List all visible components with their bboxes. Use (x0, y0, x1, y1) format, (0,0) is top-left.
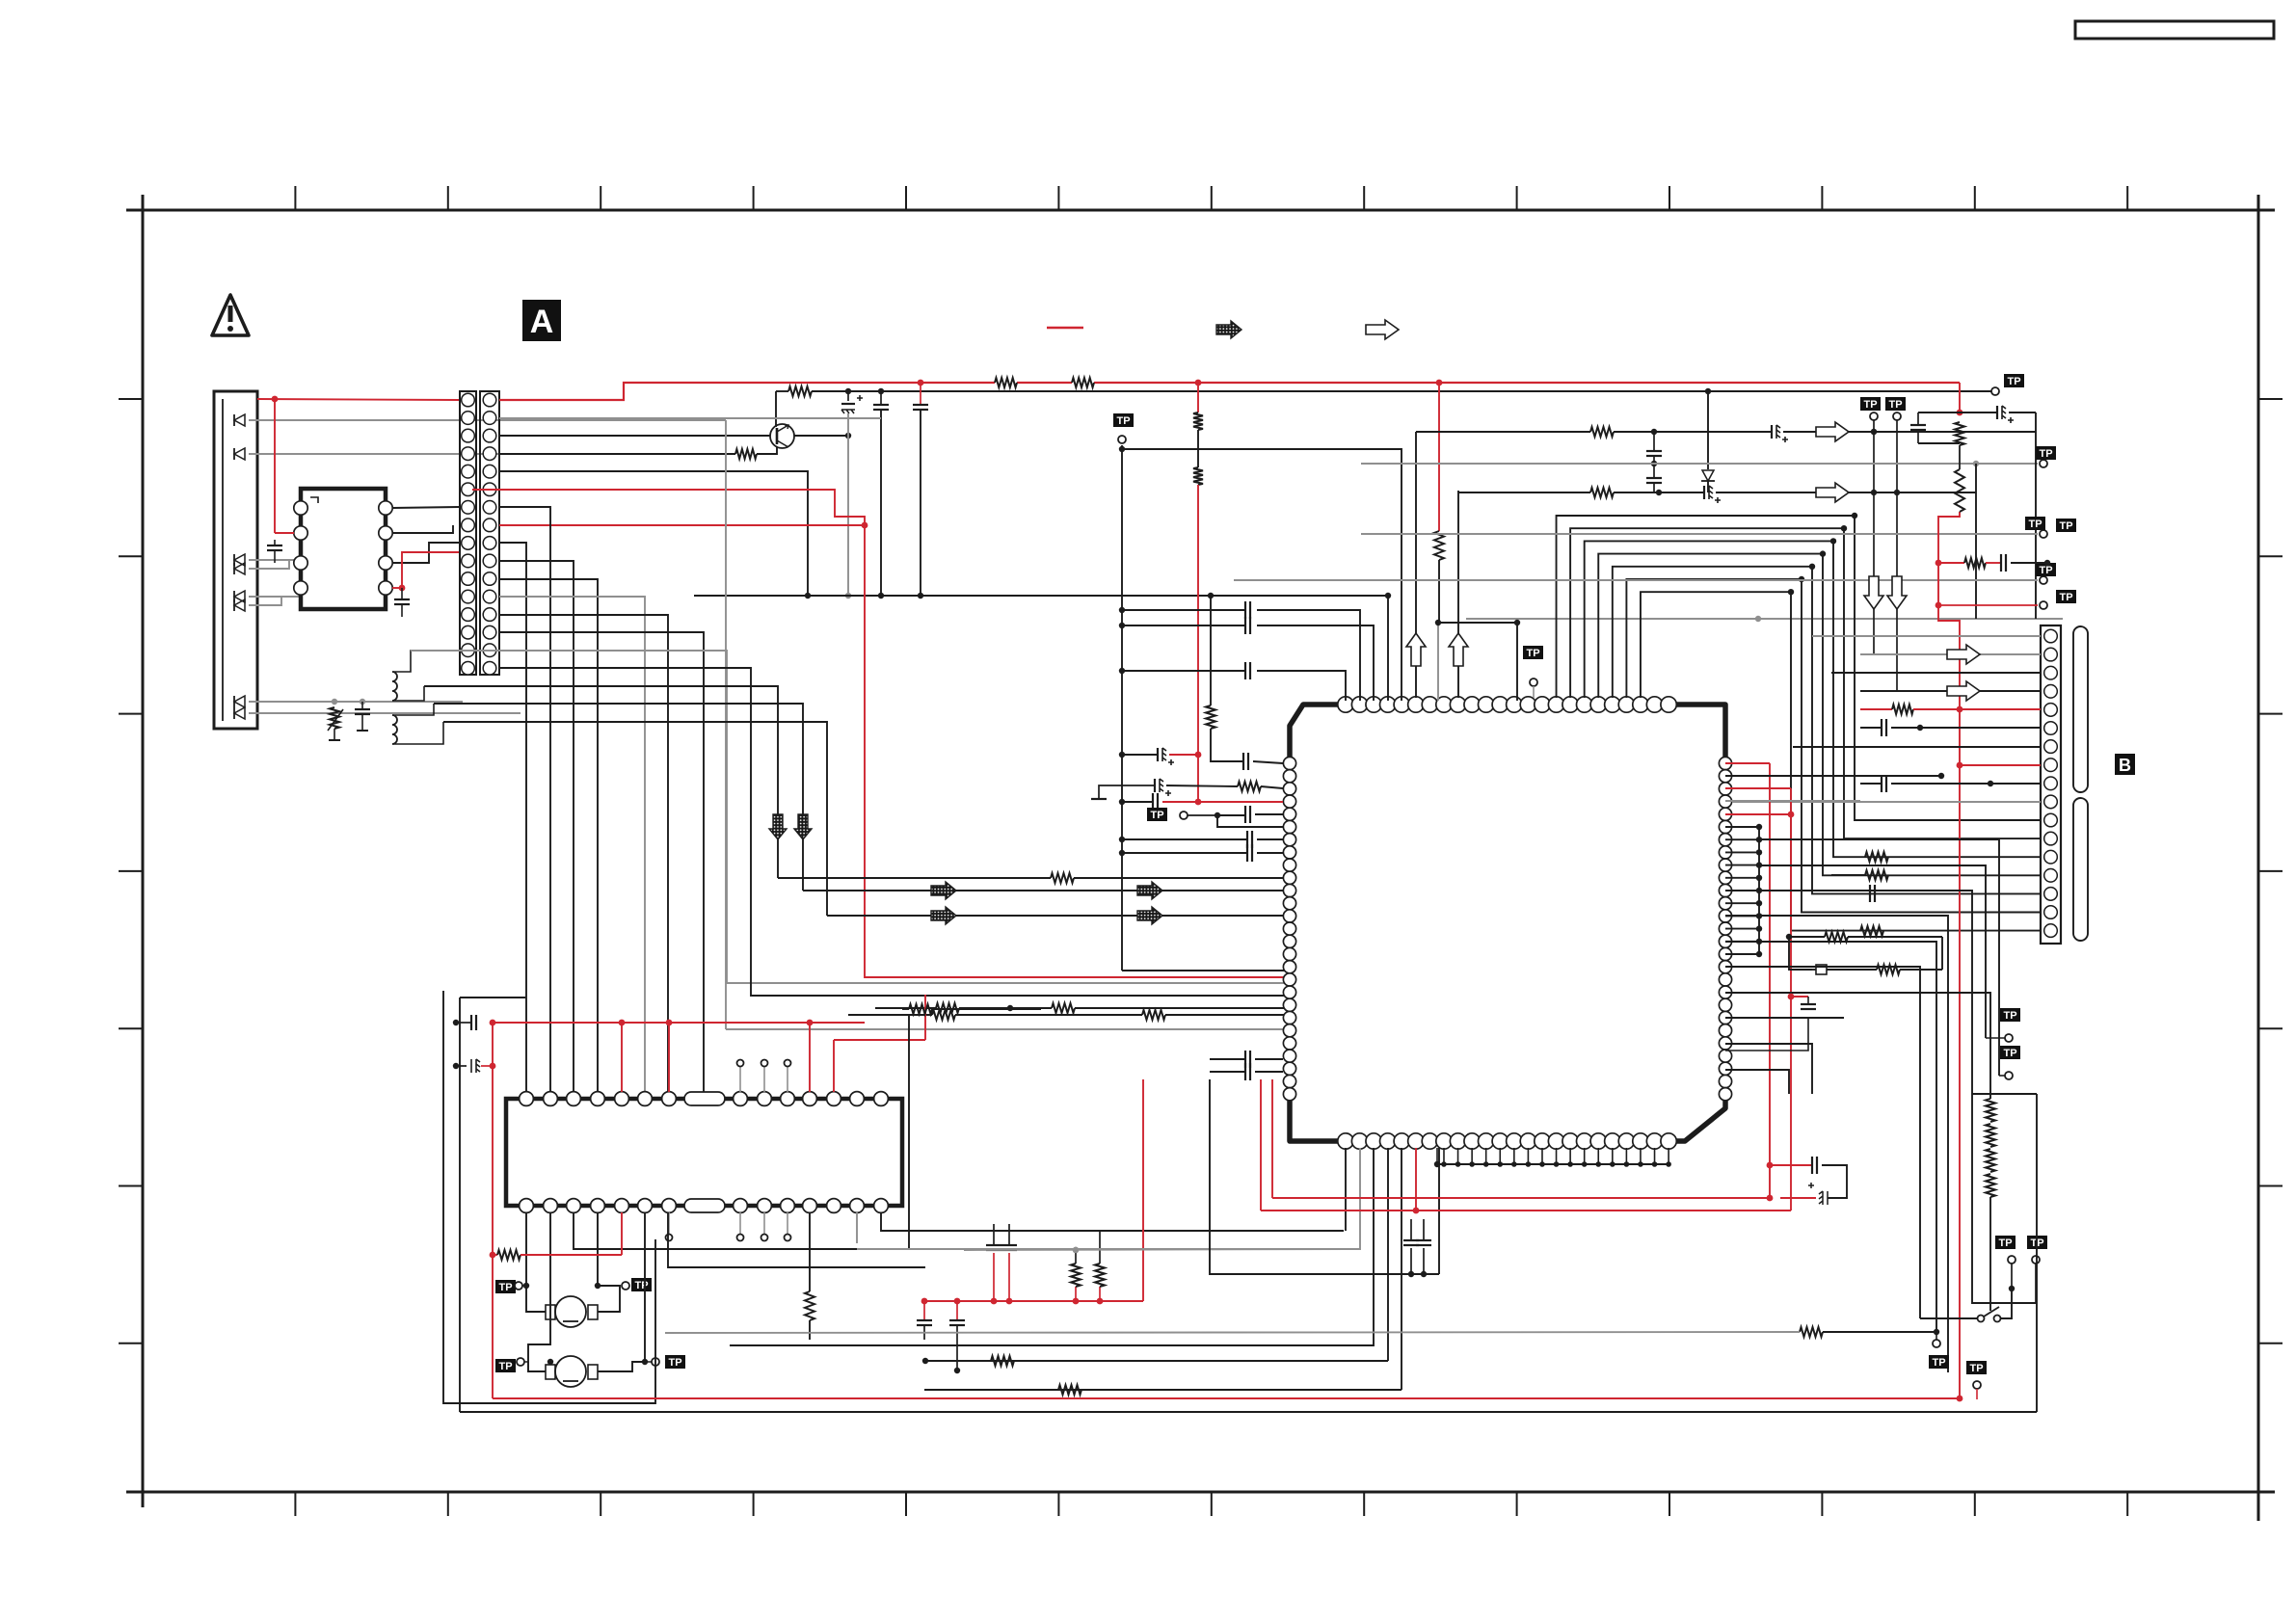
test point TP202 (1523, 646, 1543, 698)
open arrow row 511 (1816, 483, 1849, 502)
test point TP205 (2036, 446, 2056, 460)
wire A pin5 (499, 471, 811, 599)
wire TP101 down (1122, 445, 1290, 971)
wire right row 1003 (1725, 967, 1920, 1318)
section label A (522, 300, 561, 341)
staircase wire 10 (424, 686, 778, 878)
red feed IC301 pin12 (834, 995, 925, 1092)
wire A pin3 to Q101 base (499, 435, 770, 437)
staircase wire 2 (499, 507, 550, 1099)
staircase wire 11 (434, 704, 803, 891)
IC301 top pins (520, 1092, 889, 1106)
coil L102 (392, 704, 443, 744)
wire IC101 pin7 to A connector (392, 525, 453, 533)
wire riser with open arrow 2 (1457, 491, 1459, 698)
wire diode row 2 (249, 453, 499, 455)
test point TP207 (2056, 519, 2076, 532)
wire node 880 down (845, 413, 851, 599)
open arrow down pair (1864, 576, 1907, 609)
IC301 body (506, 1099, 902, 1206)
resistor row 1047 (902, 1004, 1041, 1014)
resistor loop near IC201 (1786, 932, 1942, 974)
wire diode rows 3-4 (249, 560, 301, 569)
vertical 2112 (2035, 412, 2037, 619)
wire row 1412 (922, 1356, 1388, 1366)
wire row 1322 (1210, 1079, 1439, 1274)
wire IC201 bottom pin1 (1345, 1148, 1347, 1231)
test point TP206 (2025, 517, 2045, 530)
IC IC101 body (301, 489, 386, 609)
wire row 1053 (848, 1010, 1290, 1020)
wire IC301 pin b3 (574, 1016, 909, 1249)
red drop 1493 with resistor (1434, 383, 1444, 623)
IC201 top pins (1338, 697, 1677, 712)
black branch 428 (1960, 406, 2036, 423)
wire M301 right (595, 1212, 620, 1312)
wire 2046 to switch column (1972, 1094, 2037, 1303)
wire IC201 top riser to CN201 pin 15 (1613, 564, 2041, 894)
svg-text:TP: TP (2059, 592, 2072, 603)
connector CN201 pins (2044, 629, 2058, 937)
motor M301 (546, 1296, 598, 1327)
CN201 cable capsule lower (2073, 798, 2088, 941)
svg-text:TP: TP (2007, 376, 2020, 387)
wire IC101 pin6 loop (392, 543, 460, 563)
diodes in CN101 (234, 414, 245, 719)
capacitor 1990 (1910, 412, 1960, 443)
staircase wire 9 (499, 668, 1290, 996)
resistor row 966 (1860, 926, 1883, 936)
IC201 bottom pins (1338, 1133, 1677, 1149)
test point TP213 (1986, 906, 2020, 1042)
test point TP301 (495, 1280, 526, 1293)
red drop IC301 pin7 (668, 1023, 670, 1092)
red net A pin8 (499, 522, 868, 529)
resistor risers red bus (1071, 1231, 1105, 1301)
hatched arrow row 924 b (1137, 882, 1162, 899)
resistor on Q101 emitter (499, 447, 777, 459)
wire IC201 top riser to CN201 pin 13 (1585, 538, 2041, 857)
svg-text:TP: TP (1888, 399, 1902, 411)
legend open arrow (1366, 320, 1399, 339)
net row 511 (1458, 486, 1976, 503)
wire IC301 pin b6 red (621, 1212, 623, 1255)
red row pin r792 (1725, 763, 1773, 1198)
grey row 1297 (964, 1247, 1356, 1253)
wire right row 1030 (1725, 993, 1990, 1099)
test point TP212 (1147, 808, 1188, 821)
staircase wire 6 (499, 615, 668, 1099)
title box (2075, 21, 2274, 39)
legend hatched arrow (1216, 321, 1241, 338)
IC101 right pins (379, 501, 392, 595)
row 1112 cap (1210, 1063, 1283, 1080)
row 816 ground (1091, 779, 1283, 799)
IC301 top stub test pins (737, 1060, 791, 1093)
red vertical right (1936, 383, 1963, 1398)
svg-text:TP: TP (498, 1282, 512, 1293)
IC101 pin1 tag (310, 497, 318, 503)
wire right rows lower (1725, 1044, 1812, 1094)
vertical 2050 (1975, 464, 1977, 619)
test point TP214 (1999, 1046, 2020, 1079)
wire caps under IC201 (1403, 1219, 1431, 1277)
wire right row 898 (1759, 865, 1986, 906)
warning triangle (212, 295, 249, 335)
IC301 bottom pins (520, 1199, 889, 1213)
wire IC201 top riser left 1 (1119, 662, 1346, 701)
wire right row 871 (1759, 839, 1999, 1060)
test point TP304 (645, 1355, 685, 1369)
wire B pin6 cap (1860, 719, 2041, 736)
svg-text:TP: TP (1932, 1357, 1945, 1369)
test point pair TP203 TP204 (1860, 397, 1906, 691)
red drop IC201 bottom pin6 (1413, 1148, 1420, 1213)
black bus top (776, 386, 1995, 396)
polarised capacitor left 1106 (453, 1059, 496, 1073)
trimmer resistor (328, 707, 343, 740)
red row 1243 (1272, 1079, 1773, 1201)
wire M301 left (523, 1212, 546, 1312)
wire row 1046 (875, 1003, 1290, 1013)
red vertical 1186 (1142, 1079, 1144, 1301)
test point TP101 (1113, 413, 1134, 443)
bus mid horizontal (694, 595, 1388, 597)
wire right row 977 (1725, 942, 1936, 1333)
connector CN102 row2 pins (483, 393, 496, 675)
svg-text:TP: TP (498, 1361, 512, 1372)
red junction dots top bus (918, 380, 1443, 386)
capacitor row 927 (1870, 885, 1875, 902)
wire IC301 pin b8 (668, 1212, 925, 1267)
wire diode rows 7-8 (249, 699, 521, 713)
wire IC201 top riser left 5 (1119, 446, 1402, 701)
test point TP302 (622, 1278, 652, 1291)
switch S201 (1920, 1289, 2012, 1322)
capacitor below diode row (355, 702, 370, 731)
capacitor 1876 (1725, 994, 1816, 1051)
red net IC101 pin5 (392, 552, 460, 591)
net row 448 (1416, 425, 2036, 442)
connector CN102 row2 outline (480, 391, 499, 675)
svg-text:A: A (530, 304, 554, 340)
red drop IC301 pin5 (621, 1023, 623, 1092)
red row B pin8 (1957, 762, 2041, 769)
red bus bottom (493, 1396, 1962, 1402)
resistor row 889 (1865, 852, 1888, 862)
red row B pin5 (1860, 705, 2041, 714)
hatched arrow down 1 (769, 814, 787, 839)
open arrow up 2 (1449, 633, 1468, 666)
RC loop bottom right (1770, 1157, 1847, 1205)
wire row 911 (778, 873, 1290, 883)
connector CN201 outline (2041, 625, 2061, 944)
test point TP209 (2036, 563, 2056, 576)
open arrow row 448 (1816, 422, 1849, 441)
IC301 bottom pill pin (684, 1199, 725, 1212)
test point TP218 (1966, 1361, 1987, 1399)
svg-text:TP: TP (1116, 415, 1130, 427)
wire IC201 top riser to CN201 pin 14 (1598, 550, 2041, 875)
connector CN102 row1 outline (460, 391, 476, 675)
grey row 481 (1361, 460, 2047, 467)
wire M302 left (528, 1212, 553, 1371)
ground bus under IC201 (1434, 1148, 1671, 1167)
test point TP217 (1929, 1333, 1949, 1369)
IC201 left pins (1283, 757, 1295, 1100)
row 832 cap red (1119, 793, 1283, 811)
wire IC201 bottom pin5 (1401, 1148, 1402, 1390)
svg-text:TP: TP (1526, 648, 1539, 659)
red row pin r818 (1725, 788, 1791, 1211)
wire B pin9 cap (1860, 775, 2041, 792)
border tick marks (119, 186, 2283, 1516)
wire B pin3 (1831, 672, 2041, 674)
capacitor on IC101 pin5 node (394, 588, 410, 617)
capacitor on IC101 pin2 node (267, 540, 282, 563)
legend red wire sample (1047, 327, 1083, 330)
svg-text:TP: TP (634, 1280, 648, 1291)
svg-text:TP: TP (1150, 810, 1163, 821)
wire B pin4 arrow (1860, 681, 2041, 701)
svg-text:TP: TP (2003, 1048, 2016, 1059)
grey row 1068 (726, 1028, 1290, 1030)
red drop 1243 (1193, 383, 1203, 805)
red net mid left (472, 490, 1290, 977)
connector CN101 outline (214, 391, 257, 729)
resistor chain 2033 (1955, 422, 1964, 512)
wire row 950 (827, 915, 1290, 917)
row 871 cap (1119, 831, 1283, 848)
grey row B pin10 (1732, 801, 2041, 803)
test point TP210 (2056, 590, 2076, 603)
red cap risers (986, 1224, 1017, 1301)
wire IC201 top riser to CN201 pin 16 (1626, 576, 2041, 913)
IC301 top pill pin (684, 1092, 725, 1105)
resistor chain right (1986, 1099, 1995, 1311)
red row 1256 (1261, 1079, 1791, 1211)
wire row pin r805 (1725, 773, 1944, 779)
staircase wire 7 (499, 632, 704, 1092)
capacitor left 1061 (453, 1015, 476, 1030)
wire B pin7 (1793, 746, 2041, 748)
grey bus 1383 (665, 1332, 1800, 1333)
wire IC201 top riser to CN201 pin 11 (1557, 513, 2041, 820)
polarised capacitor at node 880 (841, 391, 863, 413)
wire row 1396 (730, 1344, 1374, 1346)
connector CN102 row1 pins (462, 393, 475, 675)
wire IC201 top riser to CN201 pin 17 (1641, 589, 2041, 931)
wire diode rows 5-6 (249, 597, 301, 605)
staircase wire 8 grey (411, 651, 1290, 983)
hatched arrow row 950 a (931, 907, 956, 924)
wire diode row 1 (249, 419, 726, 421)
wire IC201 top riser left 3 (1119, 617, 1374, 701)
grey bus 642 (1466, 616, 2063, 622)
red resistor row 584 (1938, 554, 2050, 572)
red vertical 511 (492, 1023, 494, 1398)
svg-text:TP: TP (1863, 399, 1877, 411)
resistor row 1382 (1800, 1327, 1939, 1337)
svg-text:TP: TP (2003, 1010, 2016, 1022)
wire row 1442 (924, 1385, 1402, 1395)
row 885 cap (1119, 844, 1283, 862)
border frame (126, 195, 2275, 1521)
IC101 left pins (294, 501, 307, 595)
wire Q101 collector (775, 391, 777, 427)
wire IC201 bottom pin2 grey (857, 1148, 1360, 1249)
svg-text:TP: TP (2059, 520, 2072, 532)
grey row 554 (1361, 530, 2047, 538)
svg-text:TP: TP (2039, 448, 2052, 460)
wire IC301 r14 net (881, 1212, 1344, 1231)
diode D201 (1701, 391, 1715, 492)
wire A pin2 grey (499, 417, 881, 419)
wire IC201 top riser to CN201 pin 12 (1570, 525, 2041, 838)
wire bottom return (443, 991, 655, 1403)
wire B pin2 arrow (1860, 645, 2041, 664)
test point pair TP215 TP216 (1995, 1236, 2047, 1303)
staircase wire 12 (443, 722, 827, 916)
grey row 602 (1234, 576, 2047, 584)
test point TP211 top right (1991, 374, 2024, 395)
red resistor 1302 (490, 1250, 622, 1260)
red supply bus top (499, 383, 1960, 400)
wire diode net down (725, 420, 727, 1029)
wire IC201 top riser left 4 (1385, 593, 1391, 701)
wire left vertical 477 (460, 998, 525, 1412)
red cap drops (917, 1301, 965, 1373)
hatched arrow row 924 a (931, 882, 956, 899)
transistor Q101 (770, 424, 794, 448)
red bus centre 1350 (921, 1298, 1143, 1305)
wire TP212 branches (1188, 806, 1283, 827)
svg-text:TP: TP (2028, 519, 2042, 530)
IC201 right pin ladder (1725, 824, 1762, 957)
wire M302 right (598, 1212, 648, 1371)
wire IC201 top riser left 2 (1119, 601, 1360, 701)
wire IC201 bottom pin4 (1387, 1148, 1389, 1361)
wire IC301 r13 grey (856, 1212, 858, 1243)
open arrow up 1 (1406, 633, 1426, 666)
wire grey stub pin7 (1435, 620, 1520, 701)
hatched arrow down 2 (794, 814, 812, 839)
resistor row 908 (1831, 870, 1888, 880)
svg-text:TP: TP (668, 1357, 681, 1369)
CN201 cable capsule upper (2073, 626, 2088, 792)
wire 1164 lower (1100, 1230, 1122, 1232)
wire riser with open arrow 1 (1415, 432, 1417, 698)
wire row 924 (803, 890, 1290, 891)
wire IC101 pin8 (392, 507, 460, 508)
capacitor at node 914 (873, 391, 889, 599)
red row 628 (1938, 601, 2047, 609)
resistor in red bus 2 (1072, 378, 1094, 387)
wire IC201 bottom pin3 (730, 1148, 1374, 1345)
wire right row 950 (1725, 916, 1948, 1372)
red row pin r845 (1725, 811, 1794, 818)
wire B pin1 (1812, 635, 2041, 637)
staircase wire 3 (499, 561, 574, 1099)
svg-text:B: B (2119, 756, 2131, 775)
svg-text:TP: TP (2039, 565, 2052, 576)
motor M302 (546, 1356, 598, 1387)
row 1099 cap (1210, 1051, 1283, 1068)
svg-text:TP: TP (1998, 1237, 2012, 1249)
row 783 polarised cap (1119, 748, 1198, 765)
section label B (2115, 754, 2135, 775)
IC201 body outline (1290, 705, 1725, 1141)
wire Q101 right to grey node (794, 433, 851, 439)
capacitor pair between rows (1646, 432, 1662, 492)
resistor in red bus 1 (995, 378, 1017, 387)
hatched arrow row 950 b (1137, 907, 1162, 924)
wire right row 924 (1759, 891, 1972, 1094)
capacitor at node 955 (913, 383, 928, 599)
red bus motors (490, 1020, 865, 1026)
coil L101 (392, 651, 499, 701)
grey row pin r831 (1725, 800, 1860, 802)
resistor 840 below (805, 1212, 814, 1340)
svg-text:TP: TP (1969, 1363, 1983, 1374)
staircase wire 4 (499, 579, 598, 1099)
red net CN101 to IC101 pin2 (257, 396, 460, 533)
staircase wire 5 grey (499, 597, 645, 1099)
red drop IC301 pin11 (809, 1023, 811, 1092)
test point TP303 (495, 1358, 528, 1372)
black bus bottom (460, 1094, 2037, 1412)
resistor feed pin1 (1206, 593, 1283, 770)
IC201 right pins (1719, 757, 1731, 1100)
IC301 bottom stub test pins (666, 1212, 791, 1241)
wire right row 1056 (1725, 1017, 1844, 1019)
staircase wire 1 (499, 543, 526, 1099)
